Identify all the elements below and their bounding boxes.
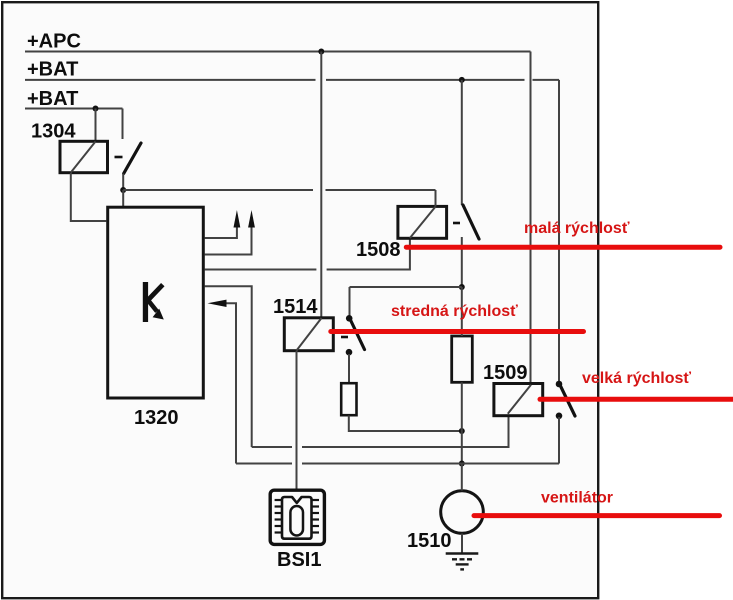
output stub arrow 2	[205, 226, 252, 255]
wire +BAT2 rail	[25, 108, 123, 110]
ground	[446, 552, 479, 555]
svg-text:1509: 1509	[483, 362, 528, 384]
relay 1508 coil diagonal	[410, 207, 436, 238]
mech link dash 1304	[115, 156, 123, 159]
BSI1 pins left	[275, 500, 282, 533]
red pointer line mala rychlost	[406, 245, 720, 250]
red pointer line velka rychlost	[540, 397, 733, 402]
junction node C (462,463.5)	[459, 461, 465, 467]
svg-text:BSI1: BSI1	[277, 549, 321, 571]
K symbol upper arm	[147, 285, 163, 301]
BSI1 slot	[290, 506, 303, 536]
wire 1514 switch to resistor R1	[348, 354, 350, 383]
switch blade 1304	[124, 143, 141, 174]
svg-text:+BAT: +BAT	[27, 59, 78, 81]
wire +BAT2 to 1304 coil	[95, 109, 97, 142]
junction on +BAT at 1508 switch feed	[459, 77, 465, 83]
junction node B (462,431)	[459, 428, 465, 434]
wire node A to R2 top	[461, 287, 463, 336]
K symbol bar	[143, 282, 148, 322]
svg-text:1304: 1304	[31, 121, 76, 143]
switch pivot dot 1509 top	[556, 381, 563, 388]
wire node C rail (hop at x=296.7)	[236, 463, 292, 465]
wire R2 bottom to node B	[461, 382, 463, 431]
wire 1304 switch to node	[122, 174, 124, 191]
wire +APC down to 1509 coil	[530, 52, 532, 384]
input arrow into 1320	[226, 303, 236, 463]
relay 1514 coil	[284, 318, 333, 351]
wire 1509 switch down to node C line	[558, 417, 560, 464]
wire node A down to 1514 switch pivot	[349, 287, 351, 316]
junction node A (462,287)	[459, 284, 465, 290]
junction on +APC at 1514 feed	[318, 49, 324, 55]
svg-text:1514: 1514	[273, 296, 318, 318]
control unit 1320 box	[108, 207, 204, 398]
switch blade 1509	[561, 386, 576, 416]
relay 1508 coil	[398, 206, 447, 238]
switch pivot dot 1514 top	[346, 315, 353, 322]
wire node B to node C	[461, 431, 463, 464]
wire R1 bottom to node B	[349, 416, 462, 432]
svg-text:+APC: +APC	[27, 31, 81, 53]
wire 1508 switch down to node	[461, 237, 463, 287]
switch blade 1508	[463, 205, 479, 239]
resistor R2 (tall)	[452, 336, 473, 382]
wire 1304 coil bottom to 1320	[71, 173, 107, 221]
svg-text:malá rýchlosť: malá rýchlosť	[524, 220, 630, 237]
relay 1514 coil diagonal	[297, 318, 322, 351]
wire +BAT down to 1509 switch	[558, 80, 560, 383]
relay 1304 coil diagonal	[71, 142, 96, 173]
BSI1 chip body with notch	[282, 497, 312, 539]
relay 1509 coil diagonal	[508, 385, 531, 414]
svg-text:1320: 1320	[134, 407, 179, 429]
svg-text:stredná rýchlosť: stredná rýchlosť	[391, 303, 518, 320]
switch pivot dot 1514 bottom	[346, 349, 353, 356]
resistor R1 (small)	[341, 383, 356, 415]
wire node C to motor	[461, 464, 463, 491]
BSI1 pins right	[312, 500, 320, 533]
red pointer line ventilator	[474, 513, 720, 518]
mech link dash 1508	[453, 222, 460, 225]
wire node to 1320 top	[122, 190, 124, 206]
wire +BAT to 1508 switch top	[461, 80, 463, 205]
junction node under 1304 switch	[120, 187, 126, 193]
wire +APC to 1514 coil top	[320, 52, 322, 318]
output stub arrow 1	[205, 226, 237, 238]
svg-text:ventilátor: ventilátor	[541, 490, 613, 507]
svg-text:+BAT: +BAT	[27, 88, 78, 110]
relay 1509 coil	[494, 384, 543, 416]
motor 1510	[441, 491, 484, 534]
svg-text:velká rýchlosť: velká rýchlosť	[582, 370, 691, 387]
K symbol lower arm with arrowhead	[149, 301, 158, 312]
switch blade 1514	[351, 320, 365, 350]
wire node A to 1514 contact	[350, 286, 462, 288]
wire 1320 to 1508 coil bottom (hop at x=321)	[205, 269, 317, 271]
wire +BAT2 to 1304 switch	[122, 109, 124, 140]
mech link dash 1514	[341, 336, 348, 339]
mech link dash 1509	[540, 398, 547, 401]
svg-text:1508: 1508	[356, 239, 401, 261]
switch pivot dot 1509 bottom	[556, 413, 563, 420]
wire node to 1508 coil (hop at x=321)	[123, 189, 313, 191]
wire 1514 coil bottom to BSI1	[296, 351, 298, 490]
junction on +BAT2 at 1304 coil feed	[93, 106, 99, 112]
svg-text:1510: 1510	[407, 530, 452, 552]
wire into 1508 coil top	[435, 190, 437, 206]
wire motor to ground	[461, 534, 463, 554]
wire +APC rail	[25, 51, 531, 53]
wire +BAT rail (hops at x=321 and x=530)	[25, 79, 316, 81]
wire 1320 to 1509 coil bottom	[205, 286, 252, 447]
red pointer line stredna rychlost	[331, 329, 584, 334]
connector BSI1 outer box	[270, 490, 324, 544]
relay 1304 coil	[60, 141, 108, 172]
